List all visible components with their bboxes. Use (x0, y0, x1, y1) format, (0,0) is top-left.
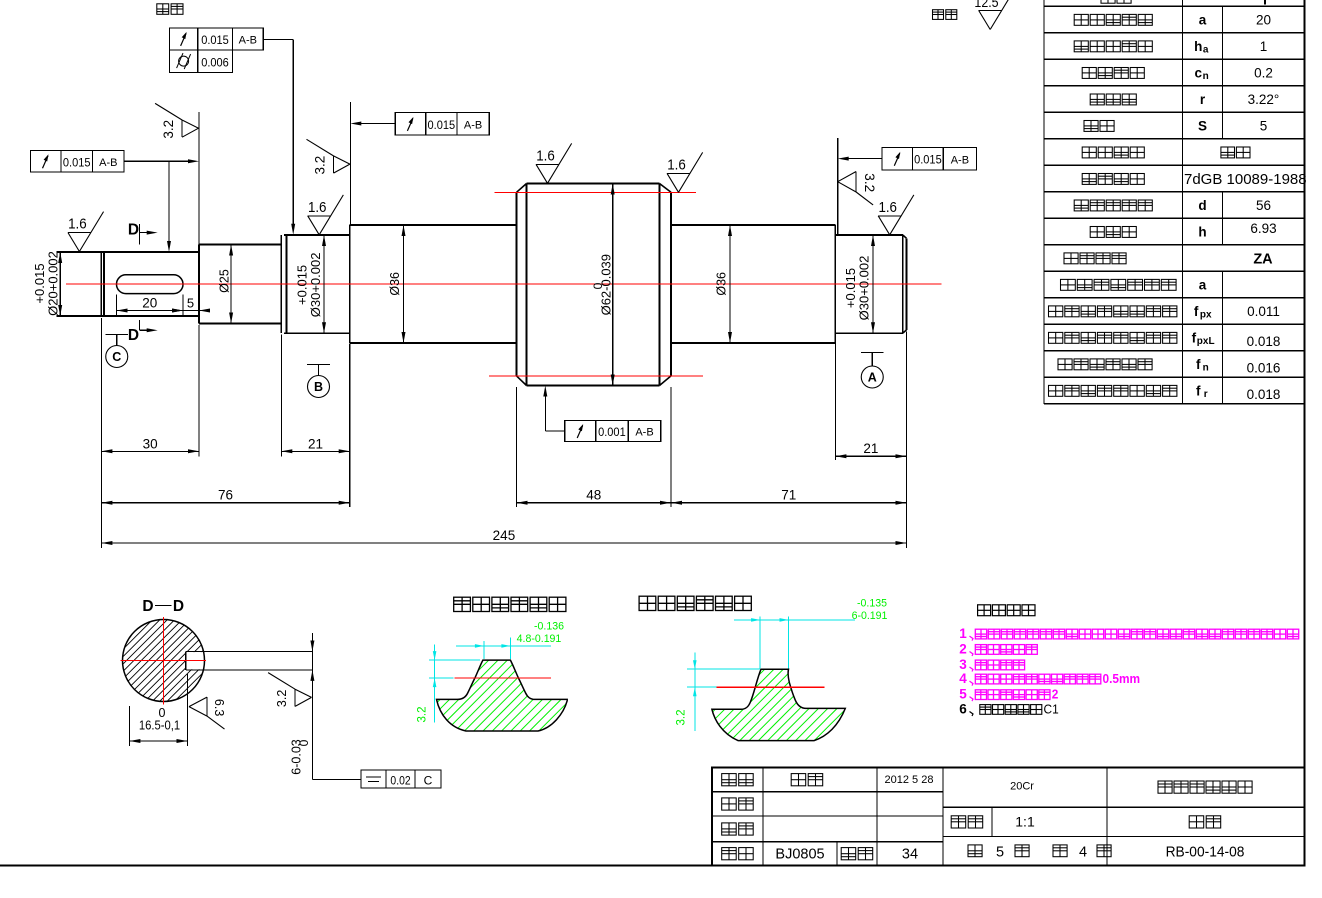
svg-text:-0.135: -0.135 (857, 597, 887, 609)
svg-text:3.2: 3.2 (161, 120, 176, 139)
svg-text:1: 1 (959, 626, 967, 641)
svg-text:48: 48 (586, 488, 601, 503)
svg-text:0.015: 0.015 (914, 154, 942, 166)
svg-text:pxL: pxL (1197, 336, 1215, 347)
svg-text:B: B (314, 380, 323, 394)
svg-text:1:1: 1:1 (1015, 814, 1035, 830)
svg-text:1.6: 1.6 (68, 215, 87, 232)
svg-text:56: 56 (1256, 198, 1271, 213)
svg-text:RB-00-14-08: RB-00-14-08 (1166, 843, 1245, 859)
svg-text:0.015: 0.015 (63, 157, 91, 169)
svg-text:d: d (1198, 198, 1206, 213)
svg-text:0.5mm: 0.5mm (1103, 672, 1141, 686)
svg-text:6-0.03: 6-0.03 (290, 739, 304, 774)
svg-text:f: f (1194, 304, 1199, 319)
svg-text:r: r (1204, 389, 1208, 400)
svg-text:1.6: 1.6 (536, 147, 555, 164)
svg-text:3.2: 3.2 (417, 707, 429, 723)
svg-text:2012 5 28: 2012 5 28 (885, 774, 934, 786)
svg-text:a: a (1199, 278, 1207, 293)
svg-text:0.015: 0.015 (201, 35, 229, 47)
svg-text:0.016: 0.016 (1247, 361, 1281, 376)
svg-text:20: 20 (1256, 13, 1271, 28)
svg-text:-0.136: -0.136 (534, 620, 564, 632)
svg-text:0.015: 0.015 (427, 119, 455, 131)
svg-text:7dGB 10089-1988: 7dGB 10089-1988 (1184, 171, 1307, 188)
svg-text:A-B: A-B (239, 35, 257, 47)
svg-text:6.93: 6.93 (1250, 221, 1276, 236)
svg-text:Ø36: Ø36 (715, 272, 729, 296)
svg-text:a: a (1203, 45, 1209, 56)
svg-text:0.018: 0.018 (1247, 334, 1281, 349)
svg-text:A-B: A-B (635, 427, 653, 439)
svg-text:ZA: ZA (1253, 252, 1273, 268)
svg-text:30: 30 (143, 436, 158, 451)
svg-text:21: 21 (308, 436, 323, 451)
svg-text:6.3: 6.3 (212, 699, 226, 716)
svg-text:0.006: 0.006 (201, 57, 229, 69)
svg-text:1.6: 1.6 (878, 198, 897, 215)
svg-text:D: D (173, 598, 184, 615)
svg-text:4: 4 (1079, 845, 1087, 861)
svg-text:n: n (1203, 71, 1209, 82)
svg-text:2: 2 (1052, 687, 1059, 701)
svg-text:C1: C1 (1044, 702, 1059, 716)
svg-text:5: 5 (996, 845, 1004, 861)
svg-text:76: 76 (218, 488, 233, 503)
svg-text:5: 5 (187, 296, 194, 311)
svg-text:h: h (1194, 39, 1202, 54)
svg-text:0.2: 0.2 (1254, 66, 1273, 81)
svg-text:12.5: 12.5 (974, 0, 998, 10)
svg-text:px: px (1200, 310, 1212, 321)
svg-text:Ø36: Ø36 (388, 272, 402, 296)
svg-text:3: 3 (959, 657, 967, 672)
svg-text:0.011: 0.011 (1247, 304, 1280, 319)
svg-text:3.2: 3.2 (676, 710, 688, 726)
svg-text:Ø30+0.002: Ø30+0.002 (308, 253, 323, 318)
svg-text:1.6: 1.6 (667, 156, 686, 173)
svg-text:34: 34 (902, 847, 918, 863)
svg-text:3.22°: 3.22° (1248, 92, 1280, 107)
svg-text:3.2: 3.2 (862, 173, 877, 192)
svg-text:f: f (1196, 357, 1201, 372)
svg-text:Ø62-0.039: Ø62-0.039 (598, 254, 613, 315)
svg-text:BJ0805: BJ0805 (775, 847, 824, 863)
svg-text:C: C (112, 350, 121, 364)
svg-text:1.6: 1.6 (308, 198, 327, 215)
svg-text:5: 5 (959, 687, 967, 702)
svg-text:a: a (1199, 13, 1207, 28)
svg-text:4.8-0.191: 4.8-0.191 (517, 633, 562, 645)
svg-text:16.5-0,1: 16.5-0,1 (139, 718, 181, 733)
svg-text:20Cr: 20Cr (1010, 781, 1034, 793)
svg-text:71: 71 (781, 488, 796, 503)
svg-text:r: r (1200, 92, 1206, 107)
svg-text:6: 6 (959, 702, 967, 717)
svg-text:3.2: 3.2 (275, 690, 289, 707)
svg-text:3.2: 3.2 (313, 156, 328, 175)
svg-text:0.018: 0.018 (1247, 387, 1281, 402)
svg-text:Ø30+0.002: Ø30+0.002 (857, 256, 872, 321)
svg-text:245: 245 (493, 528, 516, 543)
svg-text:n: n (1203, 363, 1209, 374)
svg-text:0.02: 0.02 (390, 775, 410, 788)
svg-text:D: D (128, 327, 139, 344)
svg-text:f: f (1196, 384, 1201, 399)
svg-text:h: h (1198, 225, 1206, 240)
svg-text:1: 1 (1260, 39, 1268, 54)
svg-text:20: 20 (142, 296, 157, 311)
svg-text:A-B: A-B (99, 157, 117, 169)
svg-text:D: D (128, 221, 139, 238)
svg-text:A: A (868, 371, 877, 385)
svg-text:6-0.191: 6-0.191 (852, 610, 888, 622)
svg-text:21: 21 (863, 441, 878, 456)
svg-text:Ø25: Ø25 (218, 269, 232, 293)
svg-text:4: 4 (959, 671, 967, 686)
svg-text:S: S (1198, 119, 1207, 134)
svg-text:D: D (142, 598, 153, 615)
svg-text:5: 5 (1260, 119, 1268, 134)
svg-text:Ø20+0.002: Ø20+0.002 (45, 251, 60, 316)
svg-text:A-B: A-B (951, 154, 969, 166)
svg-text:C: C (424, 774, 433, 788)
svg-text:c: c (1195, 66, 1203, 81)
svg-text:2: 2 (959, 642, 967, 657)
svg-text:A-B: A-B (464, 120, 482, 132)
svg-text:0.001: 0.001 (598, 427, 626, 439)
